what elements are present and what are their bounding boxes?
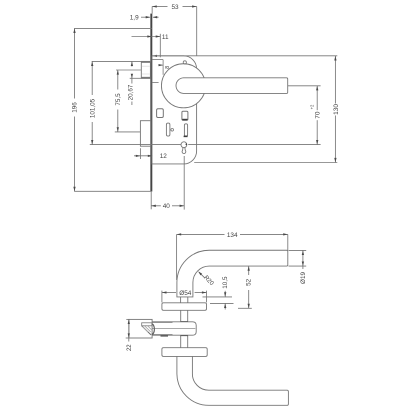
- dimension 20,67: [128, 61, 142, 105]
- left fixing hole: [157, 109, 164, 118]
- dimension 22: [126, 319, 134, 351]
- deadbolt: [140, 121, 150, 147]
- handle neck: [181, 297, 188, 303]
- lever handle grip (front view): [176, 78, 288, 94]
- dimension Ø54: [162, 290, 207, 302]
- svg-text:1,9: 1,9: [130, 15, 139, 22]
- svg-text:11: 11: [162, 34, 169, 41]
- svg-text:130: 130: [333, 104, 340, 115]
- keyhole: [181, 142, 187, 154]
- dimension 53: [152, 4, 197, 56]
- svg-text:53: 53: [171, 4, 179, 11]
- lower rose (edge view): [162, 348, 207, 357]
- upper rose (edge view): [162, 303, 207, 311]
- svg-text:75,5: 75,5: [115, 93, 122, 106]
- lower lever handle (plan view): [177, 356, 289, 405]
- svg-text:10,5: 10,5: [222, 276, 229, 289]
- right fixing hole: [182, 111, 188, 120]
- dimension 8: [152, 55, 170, 69]
- lock case lower line: [152, 81, 158, 83]
- dimension 70: [188, 86, 321, 145]
- square spindle: [180, 310, 188, 347]
- svg-text:+2: +2: [310, 104, 315, 109]
- dimension 52: [238, 266, 253, 308]
- dimension 12: [134, 148, 167, 160]
- svg-text:8: 8: [165, 66, 171, 69]
- faceplate of mortise lock: [150, 14, 152, 192]
- dimension 196: [72, 28, 152, 191]
- fixing screw with cone: [129, 319, 155, 338]
- svg-text:101,05: 101,05: [89, 98, 96, 118]
- latch bolt: [141, 61, 150, 78]
- svg-text:12: 12: [160, 153, 168, 160]
- dimension Ø19: [289, 250, 308, 284]
- svg-text:Ø54: Ø54: [179, 290, 192, 297]
- svg-text:134: 134: [227, 232, 238, 239]
- svg-text:Ø19: Ø19: [300, 272, 307, 284]
- screw hole: [183, 61, 186, 64]
- dimension R20: [198, 271, 215, 287]
- dimension 101,05: [89, 61, 181, 144]
- connecting sleeve tube: [152, 322, 197, 336]
- dimension 10,5: [203, 276, 234, 310]
- dimension 134: [177, 232, 288, 280]
- dimension 75,5: [115, 70, 141, 132]
- lock case top corner line: [152, 60, 163, 75]
- svg-text:20,67: 20,67: [128, 84, 135, 100]
- right slot: [184, 124, 188, 137]
- svg-text:40: 40: [163, 203, 171, 210]
- svg-text:196: 196: [72, 102, 79, 113]
- upper lever handle (plan view): [177, 250, 288, 297]
- svg-text:70: 70: [315, 111, 322, 119]
- svg-text:22: 22: [127, 344, 133, 351]
- dimension 11: [132, 34, 169, 58]
- left slot: [166, 123, 173, 136]
- dimension 130: [152, 56, 340, 163]
- rose (round handle rosette): [161, 64, 205, 108]
- dimension 1,9: [130, 15, 159, 22]
- svg-text:52: 52: [246, 278, 253, 286]
- dimension 40: [151, 156, 184, 210]
- long backplate (escutcheon): [152, 56, 197, 164]
